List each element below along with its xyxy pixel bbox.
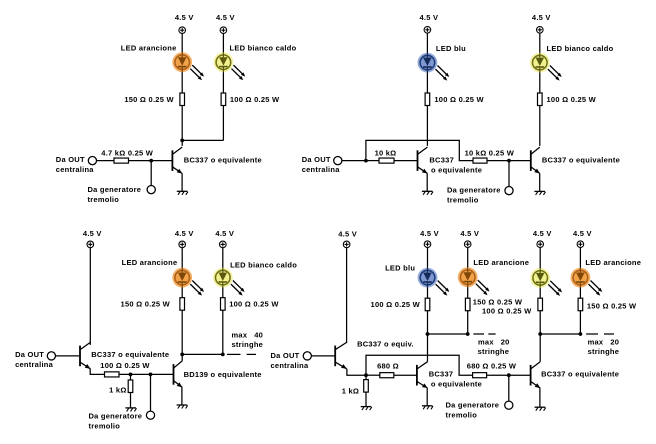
svg-text:10 kΩ: 10 kΩ xyxy=(375,148,397,157)
svg-text:150 Ω 0.25 W: 150 Ω 0.25 W xyxy=(124,95,174,104)
svg-text:o equivalente: o equivalente xyxy=(431,165,482,174)
junction: LED branches to collector xyxy=(180,139,184,143)
wire: LED string bus xyxy=(182,353,223,355)
ground (below R11) xyxy=(125,408,136,412)
junction: 1kΩ tap (circuit 3) xyxy=(129,373,133,377)
svg-text:100 Ω 0.25 W: 100 Ω 0.25 W xyxy=(230,95,280,104)
svg-text:stringhe: stringhe xyxy=(232,340,264,349)
wire: node down to tremolio terminal (circuit 3) xyxy=(150,374,152,411)
wire: input terminal to Q6 base xyxy=(311,355,335,357)
transistor Q7 BC337 (NPN, circuit 4 col A/B driver) xyxy=(417,362,428,388)
wire: node down to tremolio terminal (circuit 2) xyxy=(508,161,510,187)
svg-text:BC337: BC337 xyxy=(429,155,454,164)
terminal "Da OUT centralina" input (circuit 4) xyxy=(303,352,311,360)
svg-text:100 Ω 0.25 W: 100 Ω 0.25 W xyxy=(371,300,421,309)
svg-text:680 Ω: 680 Ω xyxy=(377,361,399,370)
wire: input terminal to resistor R3 xyxy=(97,160,115,162)
svg-text:10 kΩ 0.25 W: 10 kΩ 0.25 W xyxy=(465,148,515,157)
junction: col C on bus xyxy=(538,332,542,336)
terminal "Da OUT centralina" input (circuit 3) xyxy=(47,352,55,360)
svg-text:tremolio: tremolio xyxy=(447,196,479,205)
svg-text:Da generatore: Da generatore xyxy=(446,400,500,409)
junction: BD139 collector to LED bus xyxy=(180,353,184,357)
wire: Q7 emitter to ground xyxy=(426,388,428,406)
wire: input node up and over to R7 (crosses Q2 collector) xyxy=(366,140,473,160)
dashed wire: more LED strings (max 40), dash 2 xyxy=(247,353,256,355)
svg-text:BC337 o equivalente: BC337 o equivalente xyxy=(541,370,619,379)
terminal "Da generatore tremolio" (circuit 1) xyxy=(147,186,155,194)
svg-text:LED blu: LED blu xyxy=(436,44,466,53)
power +4.5V symbol (circuit 4, col A) xyxy=(424,241,431,248)
power +4.5V symbol (circuit 2, branch 2) xyxy=(537,27,544,34)
power +4.5V symbol (circuit 3, collector supply) xyxy=(87,241,94,248)
wire: R7 to node and Q3 base xyxy=(487,160,531,162)
svg-text:100 Ω 0.25 W: 100 Ω 0.25 W xyxy=(482,307,532,316)
svg-text:LED arancione: LED arancione xyxy=(585,258,641,267)
transistor Q6 BC337 (NPN, emitter follower, circuit 4) xyxy=(335,342,347,368)
LED D4 bianco caldo (warm white) xyxy=(530,53,562,81)
wire: emitter node to R16 xyxy=(366,374,380,376)
wire: Q8 emitter to ground xyxy=(539,388,541,407)
svg-text:LED bianco caldo: LED bianco caldo xyxy=(547,44,614,53)
power +4.5V symbol (circuit 3, orange branch) xyxy=(179,241,186,248)
power +4.5V symbol (circuit 1, branch 2) xyxy=(220,27,227,34)
svg-text:tremolio: tremolio xyxy=(446,410,478,419)
power +4.5V symbol (circuit 4, col C) xyxy=(537,241,544,248)
svg-text:1 kΩ: 1 kΩ xyxy=(109,385,126,394)
wire: 4.5V supply to warm-white LED / resistor / Q3 collector (col x=540) xyxy=(539,33,541,146)
dashed wire: more strings (max 20) A-B, dash 2 xyxy=(488,333,495,335)
svg-text:BC337 o equivalente: BC337 o equivalente xyxy=(91,350,169,359)
junction: Q6 emitter node (circuit 4) xyxy=(364,373,368,377)
dashed wire: more LED strings (max 40), dash 1 xyxy=(227,353,241,355)
junction: base node / tremolio tap (circuit 1) xyxy=(149,159,153,163)
junction: warm-white string on LED bus xyxy=(221,353,225,357)
svg-text:tremolio: tremolio xyxy=(88,195,120,204)
wire: 1kΩ to ground xyxy=(130,393,132,408)
resistor R4 100Ω (blue branch) xyxy=(425,93,430,106)
svg-text:4.5 V: 4.5 V xyxy=(83,229,102,238)
junction: Q3 base / tremolio tap (circuit 2) xyxy=(507,159,511,163)
wire: node down to 1kΩ resistor xyxy=(130,374,132,380)
terminal "Da generatore tremolio" (circuit 3) xyxy=(146,411,154,419)
ground (below R18) xyxy=(361,407,372,411)
junction: tremolio tap (circuit 3) xyxy=(149,373,153,377)
junction: col D on bus xyxy=(579,332,583,336)
svg-text:BC337: BC337 xyxy=(429,369,454,378)
resistor R14 100Ω (col C) xyxy=(538,298,543,311)
power +4.5V symbol (circuit 3, warm-white branch) xyxy=(220,241,227,248)
wire: joining both LED branches at node xyxy=(182,139,223,141)
junction: col A on bus xyxy=(426,332,430,336)
transistor Q3 BC337 (NPN, circuit 2 right) xyxy=(531,147,540,173)
LED D3 blu (blue) xyxy=(418,53,450,81)
svg-text:1 kΩ: 1 kΩ xyxy=(342,386,359,395)
ground (Q1 emitter) xyxy=(177,191,188,195)
transistor Q1 BC337 (NPN) xyxy=(172,147,182,173)
resistor R2 100Ω xyxy=(221,93,226,106)
wire: R6 to Q2 base xyxy=(394,160,418,162)
wire: 4.5V supply to orange LED string (col D) xyxy=(579,248,581,334)
svg-text:4.5 V: 4.5 V xyxy=(215,229,234,238)
svg-text:max 40: max 40 xyxy=(232,330,264,339)
wire: LED bus A-B xyxy=(428,333,468,335)
LED D1 arancione (orange) xyxy=(172,52,204,80)
resistor R5 100Ω (warm white branch) xyxy=(538,93,543,106)
wire: Q6 emitter down and right to base node xyxy=(347,369,366,375)
resistor R16 680Ω (horizontal) xyxy=(380,373,394,378)
svg-text:Da OUT: Da OUT xyxy=(56,155,85,164)
svg-text:tremolio: tremolio xyxy=(89,421,121,430)
svg-text:150 Ω 0.25 W: 150 Ω 0.25 W xyxy=(121,300,171,309)
svg-text:4.5 V: 4.5 V xyxy=(420,229,439,238)
resistor R3 4.7kΩ (horizontal) xyxy=(114,158,129,163)
ground (Q8 emitter) xyxy=(535,407,546,411)
wire: Q4 emitter down and right to R10 xyxy=(90,369,104,375)
wire: emitter node up and over to R17 (crosses Q7 collector) xyxy=(366,355,473,375)
wire: 4.5V supply to warm-white LED string (col x=223) xyxy=(222,248,224,355)
svg-text:LED bianco caldo: LED bianco caldo xyxy=(230,260,297,269)
svg-text:centralina: centralina xyxy=(271,361,310,370)
junction: Q8 base / tremolio tap (circuit 4) xyxy=(507,373,511,377)
svg-text:LED bianco caldo: LED bianco caldo xyxy=(230,44,297,53)
svg-text:Da OUT: Da OUT xyxy=(15,350,44,359)
wire: 4.5V supply down to Q4 collector xyxy=(89,248,91,345)
LED D2 bianco caldo (warm white) xyxy=(214,52,246,80)
ground (Q7 emitter) xyxy=(422,406,433,410)
power +4.5V symbol (circuit 4, collector supply) xyxy=(343,241,350,248)
resistor R9 100Ω (circuit 3 warm white) xyxy=(221,298,226,311)
wire: R10 to BD139 base xyxy=(119,373,174,375)
ground (Q5 emitter) xyxy=(177,405,188,409)
resistor R18 1kΩ (vertical, circuit 4) xyxy=(364,380,369,393)
wire: 4.5V supply to LED D2 / resistor R2 (col x=223) xyxy=(222,34,224,141)
svg-text:max 20: max 20 xyxy=(588,338,620,347)
dashed wire: more strings (max 20) A-B, dash 1 xyxy=(473,333,484,335)
LED D6 bianco caldo (warm white, circuit 3) xyxy=(213,268,245,296)
svg-text:BC337 o equivalente: BC337 o equivalente xyxy=(542,155,620,164)
svg-text:100 Ω 0.25 W: 100 Ω 0.25 W xyxy=(100,361,150,370)
wire: R3 to Q1 base xyxy=(129,160,173,162)
resistor R17 680Ω 0.25W (horizontal) xyxy=(473,373,487,378)
resistor R10 100Ω (horizontal) xyxy=(105,372,120,377)
wire: BD139 collector up to LED bus xyxy=(181,354,183,361)
transistor Q8 BC337 (NPN, circuit 4 col C/D driver) xyxy=(531,362,541,388)
wire: Q3 emitter to ground xyxy=(539,173,541,191)
power +4.5V symbol (circuit 1, branch 1) xyxy=(179,27,186,34)
wire: 4.5V supply down to Q6 collector xyxy=(346,248,348,343)
ground (Q2 emitter) xyxy=(422,191,433,195)
resistor R6 10kΩ (horizontal) xyxy=(379,158,394,163)
svg-text:stringhe: stringhe xyxy=(588,347,620,356)
wire: 4.5V supply to blue LED string (col A) xyxy=(427,248,429,334)
wire: 4.5V supply to orange LED string (col x=182) xyxy=(181,248,183,355)
svg-text:100 Ω 0.25 W: 100 Ω 0.25 W xyxy=(547,95,597,104)
wire: 4.5V supply to LED D1 / resistor R1 / transistor collector (col x=182) xyxy=(181,34,183,146)
transistor Q2 BC337 (NPN, circuit 2 left) xyxy=(418,147,428,173)
svg-text:Da generatore: Da generatore xyxy=(88,185,142,194)
svg-text:o equivalente: o equivalente xyxy=(431,379,482,388)
wire: 4.5V supply to orange LED string (col B) xyxy=(467,248,469,334)
LED D10 arancione (orange, circuit 4 col D) xyxy=(571,268,603,296)
LED D5 arancione (orange, circuit 3) xyxy=(172,268,204,296)
svg-text:BC337 o equiv.: BC337 o equiv. xyxy=(357,340,414,349)
junction: col B on bus xyxy=(466,332,470,336)
svg-text:centralina: centralina xyxy=(56,165,95,174)
svg-text:4.5 V: 4.5 V xyxy=(175,13,194,22)
wire: node down to tremolio terminal (circuit 4) xyxy=(508,375,510,401)
svg-text:4.5 V: 4.5 V xyxy=(175,229,194,238)
wire: BD139 emitter to ground xyxy=(181,387,183,405)
svg-text:4.5 V: 4.5 V xyxy=(460,229,479,238)
transistor Q4 BC337 (NPN, emitter follower) xyxy=(80,342,90,368)
resistor R1 150Ω xyxy=(180,93,185,106)
LED D9 (yellow, circuit 4 col C) xyxy=(530,268,562,296)
svg-text:4.5 V: 4.5 V xyxy=(532,13,551,22)
svg-text:4.5 V: 4.5 V xyxy=(338,229,357,238)
svg-text:LED arancione: LED arancione xyxy=(122,258,178,267)
svg-text:centralina: centralina xyxy=(15,360,54,369)
svg-text:4.5 V: 4.5 V xyxy=(573,229,592,238)
svg-text:stringhe: stringhe xyxy=(478,347,510,356)
resistor R15 150Ω (col D) xyxy=(578,298,583,311)
svg-text:Da generatore: Da generatore xyxy=(89,411,143,420)
svg-text:max 20: max 20 xyxy=(478,337,510,346)
svg-text:Da generatore: Da generatore xyxy=(447,186,501,195)
svg-text:BD139 o equivalente: BD139 o equivalente xyxy=(184,370,262,379)
svg-text:LED blu: LED blu xyxy=(385,264,415,273)
resistor R13 150Ω (col B) xyxy=(465,298,470,311)
svg-text:centralina: centralina xyxy=(302,165,341,174)
wire: node down to 1kΩ (circuit 4) xyxy=(365,375,367,379)
svg-text:150 Ω 0.25 W: 150 Ω 0.25 W xyxy=(587,301,637,310)
svg-text:100 Ω 0.25 W: 100 Ω 0.25 W xyxy=(229,300,279,309)
terminal "Da generatore tremolio" (circuit 2) xyxy=(505,187,513,195)
LED D7 blu (blue, circuit 4) xyxy=(418,268,450,296)
power +4.5V symbol (circuit 4, col B) xyxy=(464,241,471,248)
wire: 4.5V supply to yellow LED string (col C) xyxy=(539,248,541,334)
wire: base node down to tremolio terminal (circuit 1) xyxy=(150,161,152,186)
resistor R8 150Ω (circuit 3 orange) xyxy=(180,298,185,311)
svg-text:150 Ω 0.25 W: 150 Ω 0.25 W xyxy=(473,298,523,307)
wire: Q8 collector up to LED bus C-D xyxy=(539,334,541,362)
wire: input terminal to Q4 base xyxy=(56,355,81,357)
svg-text:Da OUT: Da OUT xyxy=(271,351,300,360)
svg-text:4.5 V: 4.5 V xyxy=(420,13,439,22)
svg-text:100 Ω 0.25 W: 100 Ω 0.25 W xyxy=(434,95,484,104)
junction: circuit 2 input node xyxy=(364,159,368,163)
svg-text:LED arancione: LED arancione xyxy=(121,44,177,53)
transistor Q5 BD139 (NPN power) xyxy=(174,361,183,387)
wire: input node to R6 xyxy=(366,160,379,162)
resistor R11 1kΩ (vertical) xyxy=(128,380,133,393)
power +4.5V symbol (circuit 4, col D) xyxy=(577,241,584,248)
svg-text:4.5 V: 4.5 V xyxy=(533,229,552,238)
wire: 1kΩ to ground (circuit 4) xyxy=(365,392,367,406)
svg-text:LED arancione: LED arancione xyxy=(473,258,529,267)
resistor R7 10kΩ 0.25W (horizontal) xyxy=(473,158,487,163)
svg-text:Da OUT: Da OUT xyxy=(302,155,331,164)
ground (Q3 emitter) xyxy=(534,191,545,195)
dashed wire: more strings (max 20) C-D, dash 2 xyxy=(604,333,614,335)
wire: Q7 collector up to LED bus A-B xyxy=(427,334,429,362)
svg-text:680 Ω 0.25 W: 680 Ω 0.25 W xyxy=(467,362,517,371)
svg-text:4.5 V: 4.5 V xyxy=(216,13,235,22)
resistor R12 100Ω (col A) xyxy=(425,298,430,311)
terminal "Da OUT centralina" input (circuit 1) xyxy=(88,157,96,165)
wire: R16 to Q7 base xyxy=(394,374,417,376)
wire: LED bus C-D xyxy=(540,333,580,335)
svg-text:BC337 o equivalente: BC337 o equivalente xyxy=(184,155,262,164)
terminal "Da generatore tremolio" (circuit 4) xyxy=(505,401,513,409)
svg-text:4.7 kΩ 0.25 W: 4.7 kΩ 0.25 W xyxy=(101,148,153,157)
wire: input terminal to base node (circuit 2) xyxy=(342,160,366,162)
wire: 4.5V supply to blue LED / resistor / Q2 collector (col x=427) xyxy=(426,33,428,146)
terminal "Da OUT centralina" input (circuit 2) xyxy=(334,157,342,165)
power +4.5V symbol (circuit 2, branch 1) xyxy=(424,27,431,34)
wire: R17 to Q8 base xyxy=(487,374,531,376)
wire: Q1 emitter to ground xyxy=(181,173,183,191)
dashed wire: more strings (max 20) C-D, dash 1 xyxy=(586,333,598,335)
wire: Q2 emitter to ground xyxy=(426,173,428,191)
LED D8 arancione (orange, circuit 4 col B) xyxy=(458,267,490,295)
